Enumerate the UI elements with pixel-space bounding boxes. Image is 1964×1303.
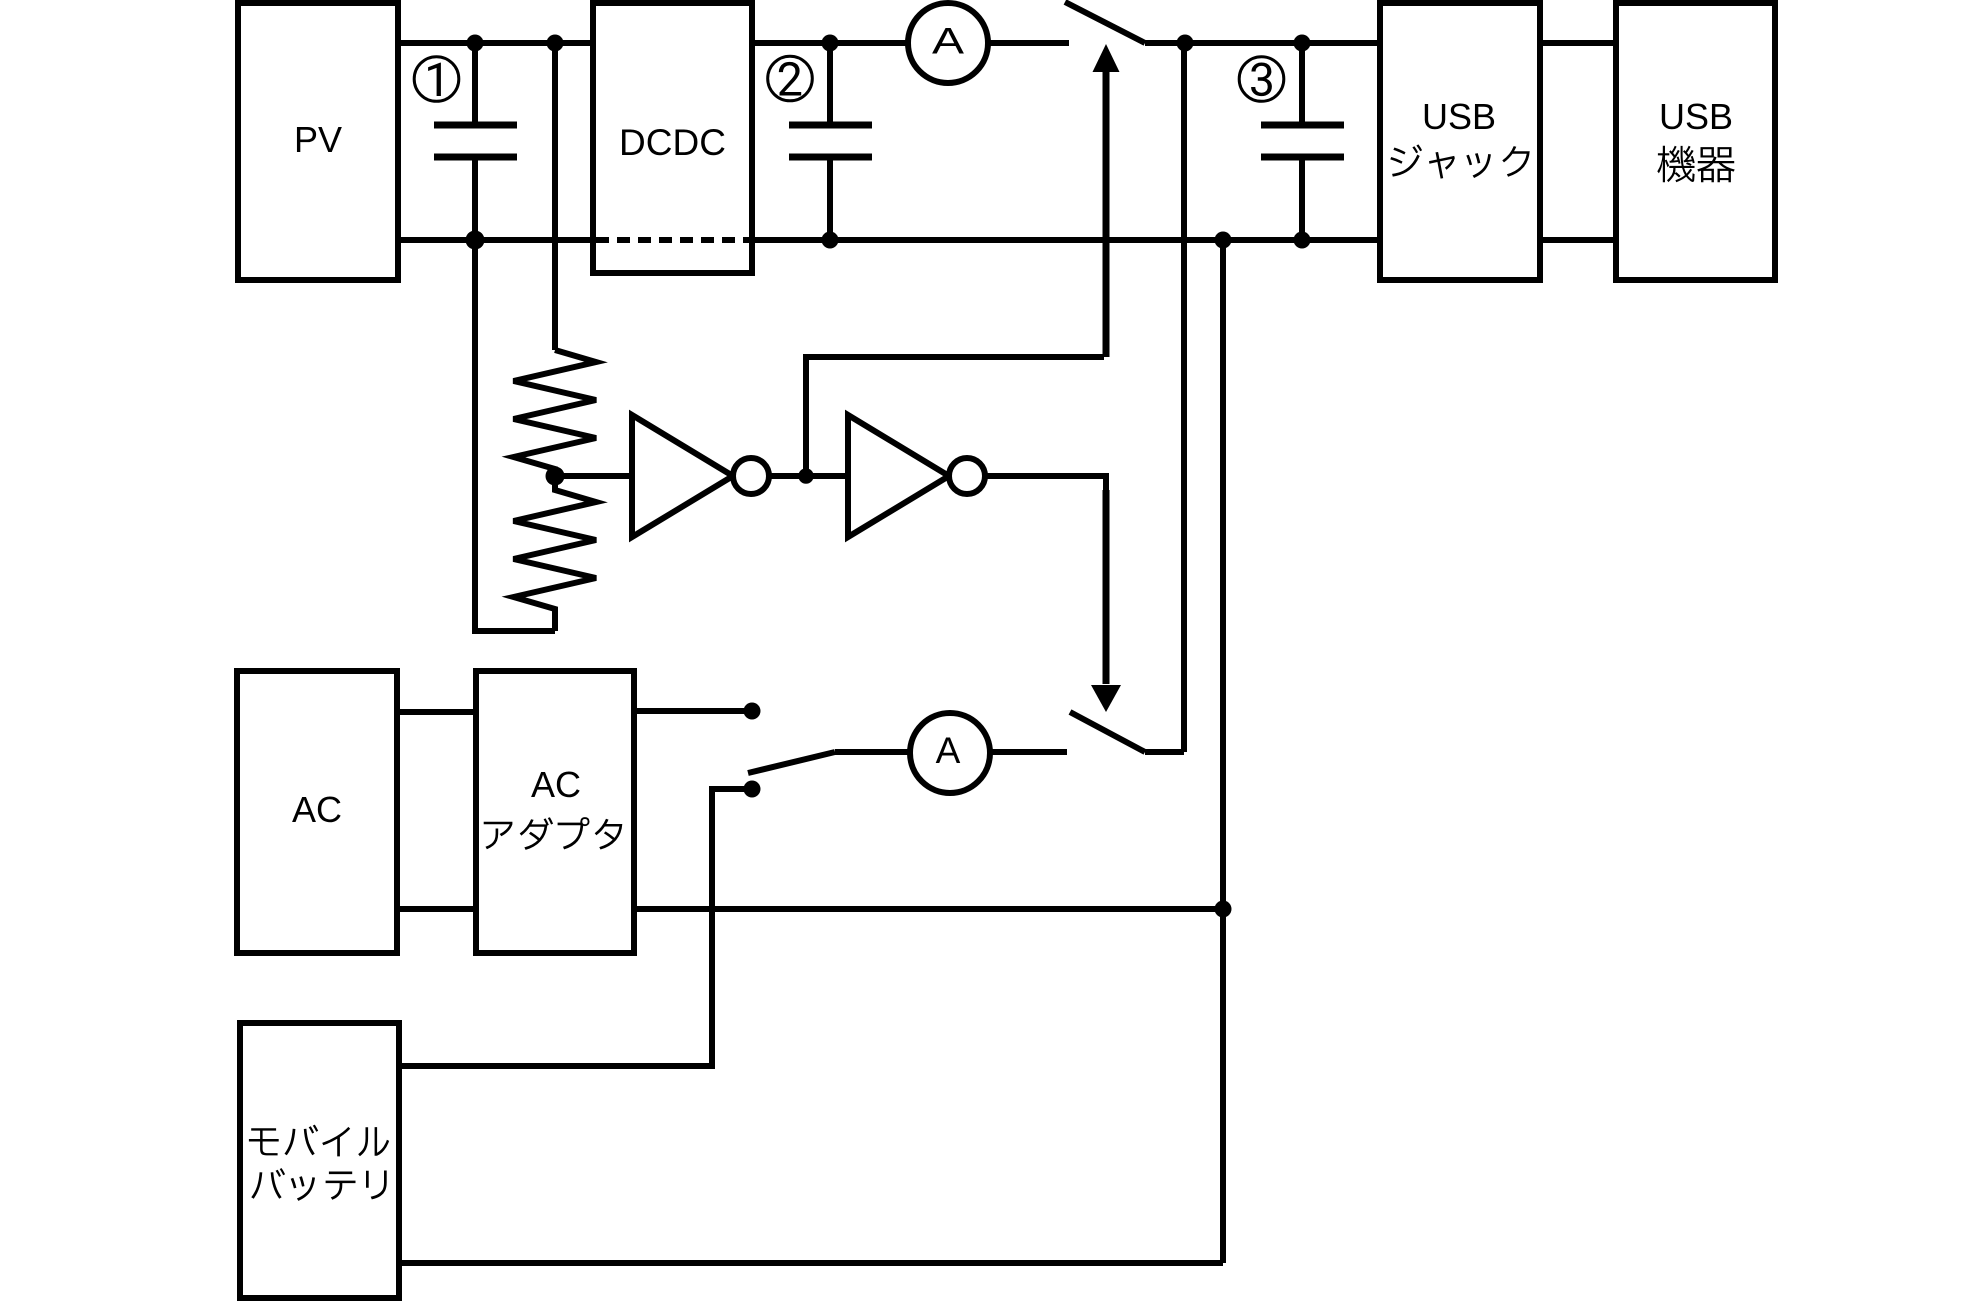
wire SW2 to node3 vertical xyxy=(1145,749,1184,755)
wire node up to arrow SW1 xyxy=(806,357,1104,476)
svg-text:PV: PV xyxy=(294,119,342,160)
box USB device xyxy=(1616,3,1775,280)
svg-text:AC: AC xyxy=(531,764,581,805)
wire resistor bottom return xyxy=(475,240,555,631)
junction dot cap3 top xyxy=(1294,35,1311,52)
capacitor C3 top lead xyxy=(1299,43,1305,125)
node label 2 circle xyxy=(768,56,813,101)
label battery kana xyxy=(251,1168,386,1201)
wire top USB jack to USB device xyxy=(1540,40,1616,46)
junction dot node3 top xyxy=(1177,35,1194,52)
wire AC to adapter bottom xyxy=(397,906,476,912)
capacitor C1 bottom lead xyxy=(472,157,478,240)
label kiki kanji xyxy=(1657,146,1734,183)
wire battery terminal stub xyxy=(399,789,752,1066)
label jack kana xyxy=(1390,144,1529,178)
junction dot node1 bottom xyxy=(466,231,485,250)
box PV xyxy=(238,3,398,280)
terminal dot battery feed xyxy=(744,781,761,798)
wire bottom rail PV to DCDC xyxy=(398,237,593,243)
wire U1 output node xyxy=(769,473,848,479)
inverter U1 triangle xyxy=(632,415,733,537)
capacitor C2 plates xyxy=(789,122,872,129)
wire A2 to SW2 open end xyxy=(990,749,1067,755)
junction dot adapter bottom net xyxy=(1215,901,1232,918)
wire divider tap to inverter U1 xyxy=(555,473,632,479)
wire dashed ground through DCDC xyxy=(596,237,752,243)
capacitor C2 bottom lead xyxy=(827,157,833,240)
inverter U2 triangle xyxy=(848,415,949,537)
node label 1 digit xyxy=(428,63,441,96)
capacitor C2 top lead xyxy=(827,43,833,125)
inverter U1 bubble xyxy=(733,458,769,494)
capacitor C3 plates xyxy=(1261,122,1344,129)
arrow up head xyxy=(1093,44,1120,72)
junction dot node2 bottom xyxy=(822,232,839,249)
switch SW2 blade xyxy=(1070,712,1145,752)
wire divider feed from top rail xyxy=(552,43,558,350)
node label 3 digit xyxy=(1251,63,1272,97)
junction dot node1 top xyxy=(467,35,484,52)
capacitor C3 bottom lead xyxy=(1299,157,1305,240)
box DCDC xyxy=(593,3,752,273)
svg-text:A: A xyxy=(932,21,964,62)
box mobile battery xyxy=(240,1023,399,1298)
junction dot divider tap xyxy=(546,467,565,486)
ammeter A1 xyxy=(908,3,988,83)
svg-text:AC: AC xyxy=(292,789,342,830)
capacitor C1 top lead xyxy=(472,43,478,125)
wire SW3 to ammeter A2 xyxy=(835,749,910,755)
ammeter A2 xyxy=(910,713,990,793)
svg-text:USB: USB xyxy=(1422,96,1496,137)
svg-text:A: A xyxy=(936,730,961,771)
junction dot divider top xyxy=(547,35,564,52)
wire bottom USB jack to USB device xyxy=(1540,237,1616,243)
wire ammeter to switch open end xyxy=(988,40,1069,46)
wire switch to USB jack xyxy=(1145,40,1380,46)
svg-text:DCDC: DCDC xyxy=(619,122,726,163)
wire bottom rail DCDC to USB jack xyxy=(752,237,1380,243)
junction dot U1 output xyxy=(798,468,813,483)
wire node3 vertical to lower switch xyxy=(1181,43,1187,752)
label adapter kana xyxy=(484,817,623,850)
inverter U2 bubble xyxy=(949,458,985,494)
wire AC to adapter top xyxy=(397,709,476,715)
junction dot cap3 bottom xyxy=(1294,232,1311,249)
junction dot battery net rail xyxy=(1215,232,1232,249)
wire top rail DCDC to ammeter xyxy=(752,40,908,46)
wire adapter output to terminal xyxy=(634,708,752,714)
terminal dot adapter output xyxy=(744,703,761,720)
svg-text:USB: USB xyxy=(1659,96,1733,137)
node label 1 circle xyxy=(414,57,459,102)
box USB jack xyxy=(1380,3,1540,280)
box AC adapter xyxy=(476,671,634,953)
wire battery negative vertical xyxy=(1220,240,1226,1263)
capacitor C1 plates xyxy=(434,122,517,129)
junction dot node2 top xyxy=(822,35,839,52)
resistor R2 xyxy=(514,476,597,631)
arrow down head xyxy=(1091,685,1121,712)
label mobile kana xyxy=(249,1125,389,1157)
wire adapter bottom to battery net xyxy=(634,906,1223,912)
wire U2 output to down arrow xyxy=(985,476,1106,500)
wire top rail PV to DCDC xyxy=(398,40,593,46)
wire battery bottom xyxy=(399,1260,1223,1266)
switch SW3 blade xyxy=(748,752,835,773)
box AC xyxy=(237,671,397,953)
resistor R1 xyxy=(514,350,597,476)
switch SW1 blade xyxy=(1065,2,1145,43)
node label 2 digit xyxy=(779,62,801,96)
node label 3 circle xyxy=(1239,57,1284,102)
